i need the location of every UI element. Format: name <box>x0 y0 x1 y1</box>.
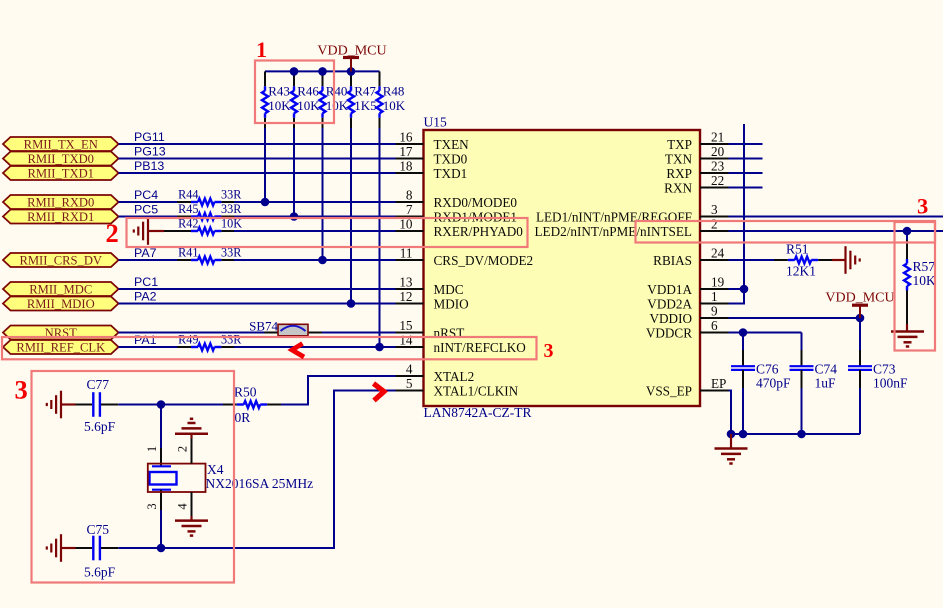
svg-text:100nF: 100nF <box>873 375 908 390</box>
svg-text:RMII_REF_CLK: RMII_REF_CLK <box>16 340 105 354</box>
svg-text:MDC: MDC <box>434 282 464 297</box>
svg-text:33R: 33R <box>221 333 242 347</box>
svg-text:R44: R44 <box>178 188 198 202</box>
svg-text:3: 3 <box>711 202 718 217</box>
svg-text:12K1: 12K1 <box>786 263 816 278</box>
svg-text:14: 14 <box>399 333 413 348</box>
svg-text:TXD1: TXD1 <box>434 166 468 181</box>
svg-text:10K: 10K <box>297 98 320 113</box>
svg-text:22: 22 <box>711 173 724 188</box>
svg-text:23: 23 <box>711 159 725 174</box>
svg-text:RXD0/MODE0: RXD0/MODE0 <box>434 195 518 210</box>
svg-text:VDDIO: VDDIO <box>650 311 693 326</box>
svg-text:RMII_TXD0: RMII_TXD0 <box>28 152 94 166</box>
svg-text:RMII_CRS_DV: RMII_CRS_DV <box>19 253 102 267</box>
svg-text:XTAL2: XTAL2 <box>434 369 475 384</box>
svg-text:TXEN: TXEN <box>434 137 470 152</box>
svg-text:VDD1A: VDD1A <box>647 282 692 297</box>
svg-text:R46: R46 <box>297 84 319 99</box>
svg-text:PA1: PA1 <box>134 333 157 347</box>
svg-text:18: 18 <box>399 159 413 174</box>
svg-text:VDD_MCU: VDD_MCU <box>825 290 894 305</box>
svg-text:RBIAS: RBIAS <box>653 253 692 268</box>
svg-text:R48: R48 <box>383 84 405 99</box>
svg-text:RXER/PHYAD0: RXER/PHYAD0 <box>434 224 524 239</box>
svg-text:5: 5 <box>406 376 413 391</box>
svg-text:2: 2 <box>176 446 190 452</box>
svg-text:VDD_MCU: VDD_MCU <box>317 44 386 59</box>
svg-text:XTAL1/CLKIN: XTAL1/CLKIN <box>434 383 519 398</box>
svg-text:5.6pF: 5.6pF <box>84 419 116 434</box>
svg-text:VSS_EP: VSS_EP <box>646 383 692 398</box>
svg-text:8: 8 <box>406 188 413 203</box>
svg-text:TXN: TXN <box>665 151 693 166</box>
svg-text:10K: 10K <box>913 273 937 288</box>
svg-text:R50: R50 <box>234 385 257 400</box>
svg-text:RXD1/MODE1: RXD1/MODE1 <box>434 209 518 224</box>
svg-text:17: 17 <box>399 144 413 159</box>
svg-text:33R: 33R <box>221 188 242 202</box>
svg-text:R45: R45 <box>178 202 198 216</box>
svg-text:PG13: PG13 <box>134 144 166 158</box>
svg-text:PB13: PB13 <box>134 159 164 173</box>
svg-text:X4: X4 <box>207 462 224 477</box>
svg-text:13: 13 <box>399 275 413 290</box>
svg-text:VDDCR: VDDCR <box>646 325 692 340</box>
svg-text:R47: R47 <box>354 84 376 99</box>
svg-text:21: 21 <box>711 130 724 145</box>
svg-text:19: 19 <box>711 275 725 290</box>
svg-text:12: 12 <box>399 289 412 304</box>
svg-text:1K5: 1K5 <box>354 98 376 113</box>
svg-text:R43: R43 <box>268 84 290 99</box>
svg-text:5.6pF: 5.6pF <box>84 565 116 580</box>
svg-text:LAN8742A-CZ-TR: LAN8742A-CZ-TR <box>424 405 532 420</box>
svg-text:10K: 10K <box>268 98 291 113</box>
svg-text:16: 16 <box>399 130 413 145</box>
svg-text:C75: C75 <box>87 522 110 537</box>
svg-text:PC1: PC1 <box>134 275 158 289</box>
svg-text:C77: C77 <box>87 377 110 392</box>
svg-text:9: 9 <box>711 304 718 319</box>
svg-text:nINT/REFCLKO: nINT/REFCLKO <box>434 340 526 355</box>
svg-text:MDIO: MDIO <box>434 296 469 311</box>
svg-text:3: 3 <box>15 375 28 405</box>
svg-text:C76: C76 <box>756 362 779 377</box>
svg-text:RXN: RXN <box>664 180 692 195</box>
svg-text:SB74: SB74 <box>249 319 278 334</box>
svg-text:15: 15 <box>399 318 413 333</box>
svg-text:4: 4 <box>176 503 190 510</box>
svg-text:20: 20 <box>711 144 725 159</box>
svg-text:PC4: PC4 <box>134 188 158 202</box>
svg-text:RMII_RXD0: RMII_RXD0 <box>27 195 94 209</box>
svg-text:1: 1 <box>145 446 159 452</box>
svg-text:NX2016SA 25MHz: NX2016SA 25MHz <box>206 476 314 491</box>
svg-text:RMII_RXD1: RMII_RXD1 <box>27 210 94 224</box>
svg-text:VDD2A: VDD2A <box>647 296 692 311</box>
svg-text:1: 1 <box>256 37 267 62</box>
svg-text:33R: 33R <box>221 202 242 216</box>
svg-text:CRS_DV/MODE2: CRS_DV/MODE2 <box>434 253 534 268</box>
svg-text:RMII_TX_EN: RMII_TX_EN <box>24 137 98 151</box>
svg-text:PA2: PA2 <box>134 289 157 303</box>
svg-text:C73: C73 <box>873 362 896 377</box>
svg-text:RXP: RXP <box>666 166 692 181</box>
svg-text:R49: R49 <box>178 333 198 347</box>
svg-text:470pF: 470pF <box>756 375 791 390</box>
svg-text:10K: 10K <box>326 98 349 113</box>
svg-text:EP: EP <box>711 376 726 391</box>
svg-text:TXD0: TXD0 <box>434 151 468 166</box>
svg-text:RMII_MDC: RMII_MDC <box>29 282 92 296</box>
svg-text:R40: R40 <box>326 84 348 99</box>
svg-text:LED2/nINT/nPME/nINTSEL: LED2/nINT/nPME/nINTSEL <box>534 224 692 239</box>
svg-text:4: 4 <box>406 362 413 377</box>
svg-text:3: 3 <box>544 340 554 362</box>
svg-text:2: 2 <box>711 217 718 232</box>
svg-text:R57: R57 <box>913 259 936 274</box>
svg-text:PC5: PC5 <box>134 202 158 216</box>
svg-text:1uF: 1uF <box>815 375 837 390</box>
svg-text:1: 1 <box>711 289 718 304</box>
svg-text:0R: 0R <box>235 410 251 425</box>
svg-text:10K: 10K <box>383 98 406 113</box>
svg-text:RMII_MDIO: RMII_MDIO <box>27 297 95 311</box>
svg-text:C74: C74 <box>815 362 838 377</box>
svg-text:24: 24 <box>711 246 725 261</box>
svg-text:3: 3 <box>145 503 159 509</box>
svg-text:U15: U15 <box>424 115 447 130</box>
svg-text:7: 7 <box>406 202 413 217</box>
svg-text:PG11: PG11 <box>134 130 165 144</box>
svg-text:RMII_TXD1: RMII_TXD1 <box>28 166 94 180</box>
svg-text:6: 6 <box>711 318 718 333</box>
svg-text:2: 2 <box>106 218 119 248</box>
svg-text:3: 3 <box>917 194 928 219</box>
svg-text:TXP: TXP <box>667 137 692 152</box>
